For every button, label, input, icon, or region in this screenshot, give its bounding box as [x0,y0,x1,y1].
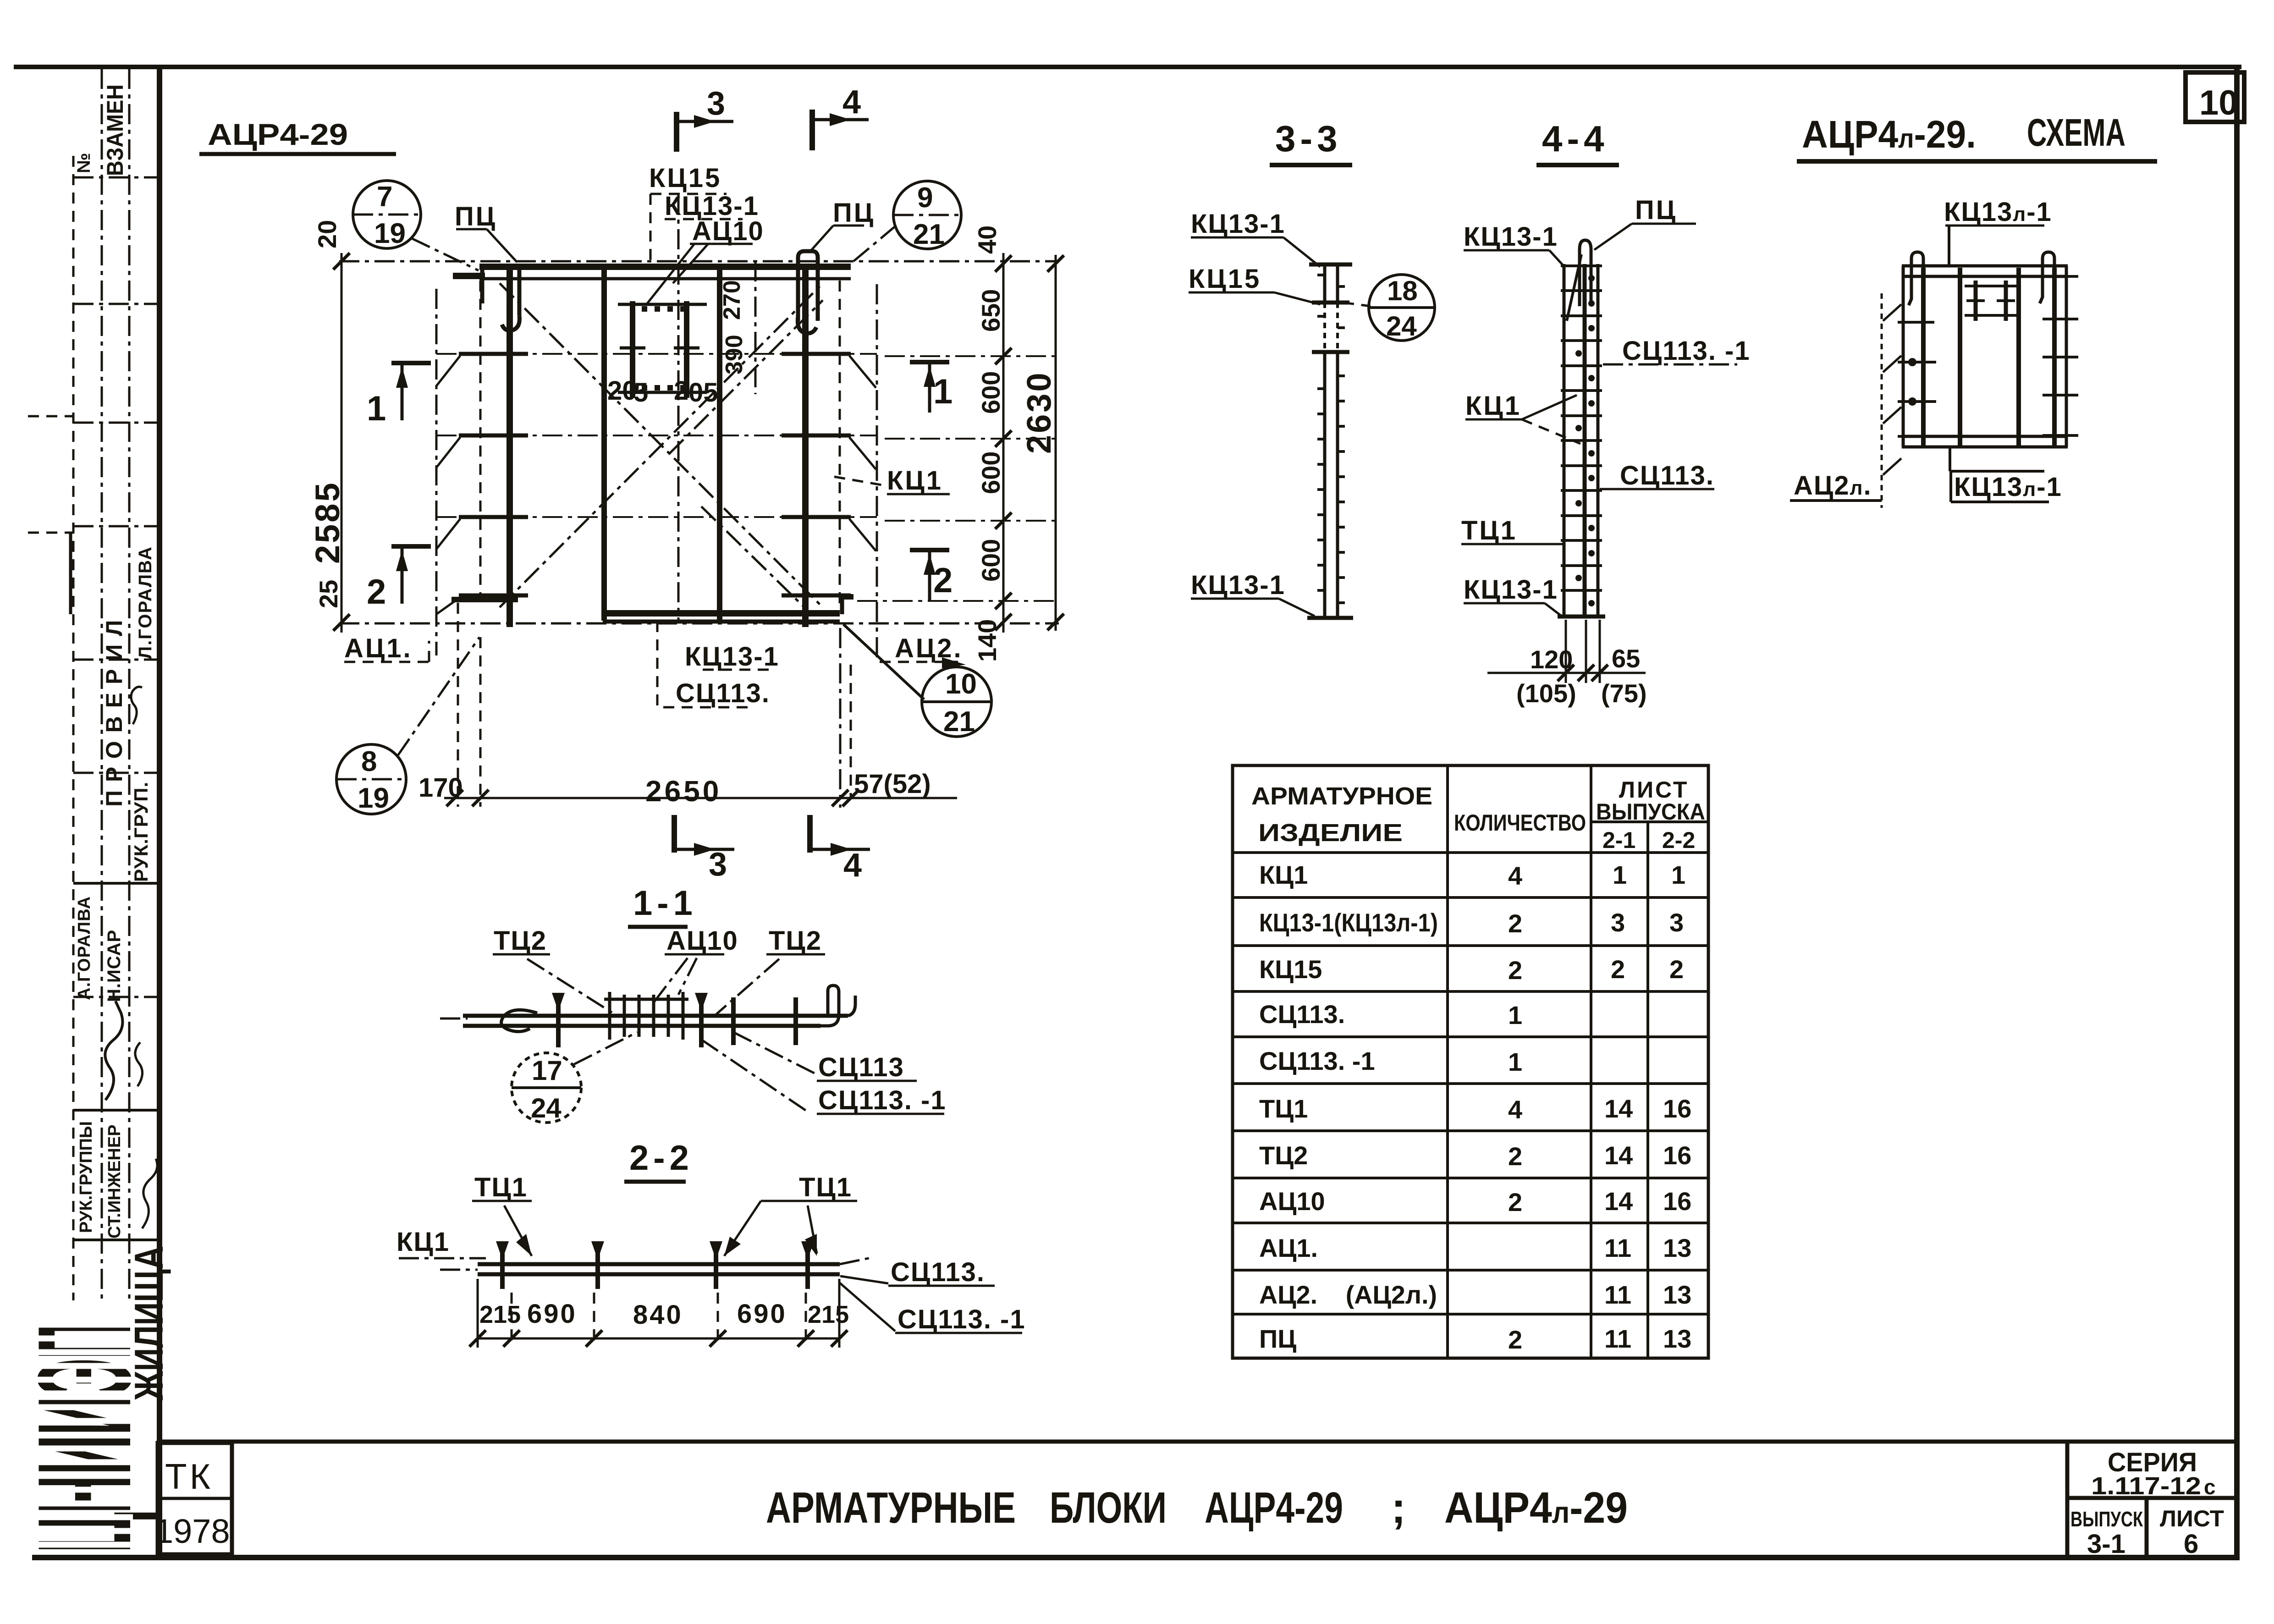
svg-text:3-1: 3-1 [2087,1529,2125,1559]
svg-text:11: 11 [1604,1233,1631,1262]
callout circle 9/21 [893,181,961,249]
right heavy bar [802,264,809,627]
stamp texts (rotated) [74,84,157,1239]
PC loop left [482,266,519,315]
PC loop right [798,251,818,321]
svg-text:3: 3 [709,846,727,883]
svg-text:215: 215 [479,1301,521,1328]
mesh cluster [610,992,683,1040]
svg-text:65: 65 [1612,644,1640,673]
svg-text:10: 10 [2199,83,2238,122]
svg-text:Н.ИСАР: Н.ИСАР [104,930,124,1002]
diagonals X [500,283,823,607]
right dashed edge [839,281,841,611]
svg-text:270: 270 [719,280,745,320]
svg-text:ТЦ1: ТЦ1 [1461,516,1517,545]
svg-text:Л.ГОРАЛВА: Л.ГОРАЛВА [135,546,155,659]
svg-text:КЦ13л-1: КЦ13л-1 [1954,472,2062,502]
svg-text:ТЦ1: ТЦ1 [1259,1094,1308,1123]
svg-text:АЦР4л-29.: АЦР4л-29. [1802,113,1976,156]
svg-text:2: 2 [1508,1142,1522,1171]
rails [1563,264,1566,618]
stamp column verticals [73,69,129,1300]
svg-text:АЦР4-29: АЦР4-29 [1205,1483,1343,1532]
svg-text:5: 5 [633,378,648,407]
svg-text:СЦ113.: СЦ113. [1259,1000,1345,1029]
lifting loop [1580,240,1591,306]
svg-text:10: 10 [945,668,977,700]
svg-text:БЛОКИ: БЛОКИ [1050,1483,1167,1532]
svg-text:ПЦ: ПЦ [833,198,875,228]
main bar [478,1262,840,1266]
svg-text:СЦ113. -1: СЦ113. -1 [1622,336,1751,366]
svg-text:840: 840 [633,1300,683,1330]
svg-text:21: 21 [913,219,945,250]
bold ticks with arrows [558,995,796,1047]
svg-text:1978: 1978 [154,1512,230,1550]
svg-text:690: 690 [737,1299,787,1329]
svg-text:19: 19 [374,218,406,249]
small detail [1974,281,1978,321]
svg-text:1: 1 [367,389,386,428]
svg-text:2: 2 [367,573,386,611]
svg-text:АЦ2. (АЦ2л.): АЦ2. (АЦ2л.) [1259,1280,1437,1309]
svg-text:1: 1 [1508,1047,1522,1076]
svg-text:600: 600 [976,539,1005,582]
svg-text:СЦ113. -1: СЦ113. -1 [897,1305,1026,1334]
callout circle 7/19 [353,181,421,248]
svg-text:215: 215 [808,1301,849,1328]
svg-text:13: 13 [1663,1233,1691,1262]
svg-text:8: 8 [361,746,377,777]
svg-text:57(52): 57(52) [854,769,931,799]
svg-text:2: 2 [674,376,688,406]
svg-text:170: 170 [418,773,463,803]
svg-text:9: 9 [917,182,933,214]
mid frame bars KC13-1 [601,268,607,621]
svg-text:РУК.ГРУППЫ: РУК.ГРУППЫ [77,1121,96,1233]
svg-text:ЖИЛИЩА: ЖИЛИЩА [126,1246,171,1401]
svg-text:КЦ1: КЦ1 [1259,860,1308,889]
svg-text:ПРОВЕРИЛ: ПРОВЕРИЛ [101,612,127,807]
svg-text:СЦ113. -1: СЦ113. -1 [1259,1046,1375,1075]
svg-text:13: 13 [1663,1280,1691,1309]
svg-text:14: 14 [1604,1141,1633,1170]
svg-text:2650: 2650 [645,775,721,808]
svg-text:2: 2 [1508,909,1522,938]
svg-text:ТЦ1: ТЦ1 [799,1173,852,1202]
leaders [504,1206,532,1256]
svg-text:2: 2 [1508,1188,1522,1217]
svg-text:c: c [2204,1475,2216,1499]
svg-text:1: 1 [1671,860,1685,889]
svg-text:СЦ113: СЦ113 [818,1052,904,1082]
overall 2630 dimension [1020,255,1064,631]
svg-text:120: 120 [1530,645,1573,674]
svg-text:АЦР4-29: АЦР4-29 [208,117,348,151]
svg-text:АЦ10: АЦ10 [1259,1187,1325,1216]
svg-text:СЦ113.: СЦ113. [891,1257,985,1287]
svg-text:18: 18 [1387,275,1418,306]
svg-text:4: 4 [843,847,862,884]
svg-text:4: 4 [1508,861,1522,890]
svg-text:20: 20 [313,220,341,248]
svg-text:КЦ13-1: КЦ13-1 [685,642,779,672]
svg-text:16: 16 [1663,1187,1691,1216]
svg-text:11: 11 [1604,1324,1631,1353]
rungs [1561,266,1602,590]
svg-text:СЦ113. -1: СЦ113. -1 [818,1085,947,1115]
svg-text:КЦ13-1: КЦ13-1 [1464,575,1558,605]
svg-text:№: № [74,153,94,173]
svg-text:600: 600 [976,371,1005,414]
circle 17/24 [512,1053,581,1123]
svg-text:1-1: 1-1 [633,884,697,923]
svg-text:3: 3 [1611,908,1625,937]
svg-text:ИЗДЕЛИЕ: ИЗДЕЛИЕ [1258,819,1403,847]
stamp column row lines [73,177,159,1240]
KC13-1 / SC113 labels below panel [657,621,779,708]
ladder rails [1323,263,1327,303]
svg-text:ВЫПУСКА: ВЫПУСКА [1596,799,1705,825]
left paper edge line [28,415,73,418]
top datum dash-dot [339,260,1059,263]
svg-text:КЦ13-1: КЦ13-1 [1191,209,1285,239]
svg-text:2: 2 [1508,1325,1522,1354]
svg-text:КЦ15: КЦ15 [649,163,721,193]
svg-text:АРМАТУРНЫЕ: АРМАТУРНЫЕ [766,1483,1016,1532]
main bar [440,1018,468,1020]
svg-text:140: 140 [973,619,1002,662]
section mark 2 left [367,546,431,611]
svg-text:3-3: 3-3 [1275,118,1342,159]
svg-text:СТ.ИНЖЕНЕР: СТ.ИНЖЕНЕР [105,1124,124,1239]
svg-text:17: 17 [532,1055,562,1086]
circle 18/24 [1369,275,1435,341]
svg-text:ТЦ2: ТЦ2 [769,926,822,956]
section mark 1 right [910,362,953,413]
svg-text:СЦ113.: СЦ113. [676,678,770,708]
svg-text:6: 6 [2184,1529,2198,1559]
svg-text:7: 7 [377,181,392,213]
svg-text:КЦ13-1: КЦ13-1 [1464,222,1558,252]
bottom section mark 4 [810,815,870,884]
CNIIEP logo (rotated block letters) [11,1246,171,1553]
rungs left/right [1898,322,1936,436]
svg-text:13: 13 [1663,1324,1691,1353]
top section mark 4 [809,110,815,150]
svg-text:2: 2 [933,561,953,600]
svg-text:4: 4 [1508,1095,1522,1124]
svg-text:16: 16 [1663,1094,1691,1123]
square outline [1902,264,2068,268]
top chord [479,264,851,270]
svg-text:КЦ13-1: КЦ13-1 [1191,570,1285,600]
svg-text:24: 24 [1386,311,1417,341]
svg-text:АЦ10: АЦ10 [666,926,738,956]
svg-text:4-4: 4-4 [1542,118,1609,159]
svg-text:600: 600 [976,451,1005,494]
svg-text:24: 24 [531,1093,562,1123]
inner bars [1921,268,1926,446]
svg-text:КЦ1: КЦ1 [887,466,943,495]
callout circle 8/19 [336,744,406,814]
bottom dimension line [418,603,957,808]
svg-text:ТК: ТК [165,1456,213,1497]
left heavy bar [507,264,513,627]
svg-text:АЦ10: АЦ10 [692,216,764,246]
left bar ticks + leaders [436,289,528,655]
svg-text:СХЕМА: СХЕМА [2027,111,2125,154]
title block (series / issue / sheet) [2067,1442,2237,1559]
svg-text:РУК.ГРУП.: РУК.ГРУП. [130,782,152,882]
svg-text:ПЦ: ПЦ [1635,195,1677,225]
svg-text:КЦ15: КЦ15 [1259,955,1322,984]
svg-text:20: 20 [607,376,637,406]
svg-text:КЦ13-1(КЦ13л-1): КЦ13-1(КЦ13л-1) [1259,908,1438,937]
svg-text:2585: 2585 [308,481,347,564]
svg-text:19: 19 [358,782,389,814]
svg-text:3: 3 [707,85,725,122]
svg-text:АЦ1.: АЦ1. [1259,1233,1318,1262]
svg-text:3: 3 [1669,908,1684,937]
svg-text:(105): (105) [1516,679,1576,708]
svg-text:11: 11 [1604,1280,1631,1309]
parts table [1233,765,1708,1358]
svg-text:ВЫПУСК: ВЫПУСК [2070,1507,2143,1531]
svg-text:14: 14 [1604,1187,1633,1216]
bottom chord [451,597,518,602]
svg-text:ТЦ2: ТЦ2 [494,926,547,956]
svg-text:АРМАТУРНОЕ: АРМАТУРНОЕ [1251,782,1432,810]
horizontal dash-dot levels [436,353,877,355]
svg-text:2-2: 2-2 [629,1139,694,1178]
svg-text:2-2: 2-2 [1662,827,1695,853]
top section mark 3 [674,112,679,152]
dashed left guide [1881,293,1883,508]
leaders [527,959,614,1014]
svg-text:ТЦ1: ТЦ1 [474,1173,528,1202]
svg-text:14: 14 [1604,1094,1633,1123]
dimension line [478,1338,839,1340]
svg-text:2: 2 [1669,955,1684,984]
svg-text:КОЛИЧЕСТВО: КОЛИЧЕСТВО [1454,810,1586,836]
right dimension line [973,226,1012,662]
svg-text:1: 1 [1613,860,1627,889]
svg-text:ПЦ: ПЦ [1259,1324,1296,1353]
svg-text:16: 16 [1663,1141,1691,1170]
svg-text:1: 1 [1508,1001,1522,1029]
svg-text:АЦ2.: АЦ2. [895,633,963,663]
svg-text:21: 21 [943,706,975,738]
bottom dims [1565,620,1567,683]
AC10 detail [607,261,755,407]
svg-text:1: 1 [933,372,953,411]
svg-text:ПЦ: ПЦ [455,202,497,231]
callout circle 10/21 [922,667,991,737]
svg-text:650: 650 [976,289,1005,332]
svg-text:КЦ13л-1: КЦ13л-1 [1944,197,2052,227]
end ticks [1309,263,1352,267]
left dimension line [308,220,350,633]
svg-text:;: ; [1391,1483,1406,1532]
svg-text:4: 4 [842,84,861,121]
svg-text:ТЦ2: ТЦ2 [1259,1141,1308,1170]
svg-text:ВЗАМЕН: ВЗАМЕН [102,84,128,176]
TK 1978 box [154,1443,232,1554]
svg-text:КЦ1: КЦ1 [1465,391,1521,421]
svg-text:КЦ15: КЦ15 [1189,264,1261,294]
left dashed edge [479,281,482,599]
hooks [1909,252,1923,305]
section mark 1 left [367,363,431,428]
svg-text:690: 690 [527,1299,577,1329]
svg-text:КЦ1: КЦ1 [396,1227,450,1257]
svg-text:2: 2 [1508,956,1522,985]
svg-text:2-1: 2-1 [1602,827,1635,853]
right bar ticks + leaders [782,284,877,660]
svg-text:1.117-12: 1.117-12 [2091,1472,2201,1500]
bottom datum dash-dot [339,622,1059,625]
page number box [2186,72,2244,122]
svg-text:25: 25 [314,580,343,608]
svg-text:ЛИСТ: ЛИСТ [2160,1506,2224,1531]
svg-text:АЦР4л-29: АЦР4л-29 [1444,1483,1628,1532]
svg-text:А.ГОРАЛВА: А.ГОРАЛВА [75,896,94,1000]
svg-text:2: 2 [1611,955,1625,984]
bottom section mark 3 [674,815,734,883]
bottom title strip [161,1440,2237,1444]
bold ticks [502,1243,808,1289]
svg-text:2630: 2630 [1020,371,1058,454]
section mark 2 right [910,550,953,600]
svg-text:40: 40 [973,226,1002,254]
svg-text:СЦ113.: СЦ113. [1620,461,1714,490]
svg-text:АЦ1.: АЦ1. [344,633,413,663]
svg-text:(75): (75) [1601,679,1647,708]
